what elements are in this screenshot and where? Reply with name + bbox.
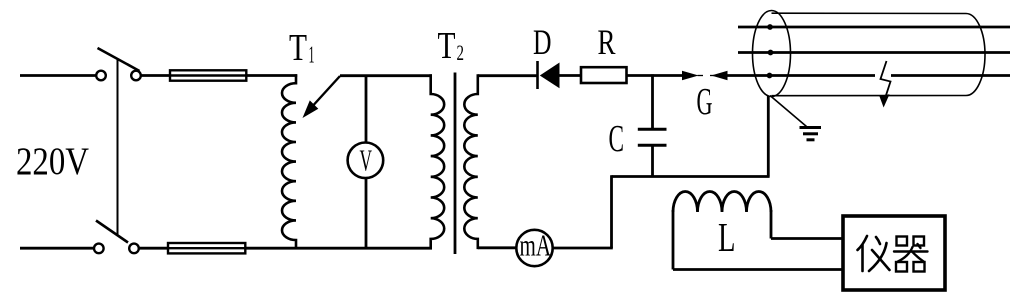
cable sheath left end ellipse (753, 11, 791, 97)
resistor R body (581, 67, 627, 83)
svg-text:D: D (533, 22, 552, 62)
wire: gap electrode to cable core 3 (727, 74, 876, 77)
svg-text:T: T (438, 25, 456, 67)
svg-text:V: V (360, 143, 373, 178)
wire: wiper output top rail (340, 74, 432, 77)
voltmeter V branch upper wire (365, 76, 368, 143)
spark gap G right electrode arrowhead (711, 71, 727, 80)
wire: resistor R to gap electrode (627, 74, 684, 77)
capacitor C bottom plate (638, 144, 667, 147)
diode D cathode bar (536, 61, 539, 89)
lightning fault arrowhead (879, 94, 889, 107)
wire: T2 secondary bottom to mA meter (478, 246, 517, 249)
svg-text:1: 1 (309, 43, 315, 69)
svg-text:L: L (718, 214, 736, 260)
switch S1 pole A contact 1 (96, 71, 106, 81)
T1 wiper arrowhead (303, 100, 319, 118)
svg-text:R: R (598, 22, 616, 62)
label 仪 (instrument char 1) (858, 236, 890, 271)
voltmeter V branch lower wire (365, 178, 368, 248)
cable sheath bottom line (772, 95, 967, 97)
svg-text:mA: mA (520, 228, 552, 263)
diode D triangle (540, 63, 560, 89)
wire: L right lead to instrument box (771, 237, 844, 240)
cable core 1 terminal dot (767, 24, 773, 30)
switch S1 pole A blade (98, 48, 140, 71)
inductor L humps (673, 192, 771, 213)
capacitor C top plate (638, 128, 667, 131)
wire: sheath down lead (767, 96, 770, 177)
svg-text:G: G (697, 81, 713, 123)
T1 wiper arrow line (309, 76, 340, 110)
wire: return horizontal (612, 175, 770, 178)
wire: switch pole B to fuse FU2 (139, 247, 168, 250)
wire: fuse FU1 to T1 top (246, 74, 297, 77)
spark gap G left needle (698, 75, 704, 77)
lightning fault bolt (881, 61, 891, 99)
svg-text:220V: 220V (16, 140, 89, 183)
wire: fuse FU2 to bottom rail (245, 247, 432, 250)
wire: L bottom to instrument box (673, 268, 844, 271)
switch S1 pole B blade (96, 221, 128, 243)
svg-text:2: 2 (457, 40, 465, 65)
svg-text:C: C (609, 118, 625, 160)
capacitor C bottom lead (651, 145, 654, 177)
switch S1 pole B contact 2 (129, 244, 139, 254)
wire: T2 secondary top to diode D (478, 74, 537, 77)
wire: 220V top lead-in (20, 74, 96, 77)
cable core 2 terminal dot (768, 50, 774, 56)
spark gap G right needle (710, 75, 717, 77)
switch S1 pole B contact 1 (94, 244, 104, 254)
inductor L right lead (770, 210, 773, 239)
cable core 2 (738, 51, 1010, 54)
switch S1 pole A contact 2 (131, 71, 141, 81)
milliammeter mA circle (516, 230, 552, 266)
wire: return vertical (610, 175, 613, 248)
voltmeter V circle (348, 143, 384, 179)
ground bar 3 (807, 138, 815, 141)
inductor L left lead (672, 210, 675, 270)
fuse FU1 (170, 70, 246, 80)
instrument box (843, 216, 945, 290)
svg-text:T: T (289, 27, 307, 69)
transformer T2 primary winding (431, 74, 445, 249)
cable core 3 terminal dot (767, 73, 773, 79)
ground lead diagonal (770, 96, 807, 127)
cable core 1 (738, 26, 1010, 29)
capacitor C top lead (651, 74, 654, 129)
cable sheath top line (772, 12, 967, 14)
switch S1 gang link (117, 58, 119, 235)
cable core 3 right segment (891, 74, 1010, 77)
transformer T2 core (454, 73, 457, 255)
wire: mA meter to return vertical (553, 247, 613, 250)
ground bar 1 (800, 126, 822, 129)
autotransformer T1 winding (282, 74, 296, 249)
wire: switch to fuse FU1 (141, 74, 170, 77)
fuse FU2 (168, 243, 245, 253)
label 器 (instrument char 2) (894, 237, 928, 272)
transformer T2 secondary winding (464, 74, 478, 249)
wire: 220V bottom lead-in (20, 247, 94, 250)
wire: diode to resistor R (560, 74, 582, 77)
cable sheath right end arc (966, 14, 985, 96)
ground bar 2 (803, 132, 818, 135)
spark gap G left electrode arrowhead (682, 71, 699, 80)
